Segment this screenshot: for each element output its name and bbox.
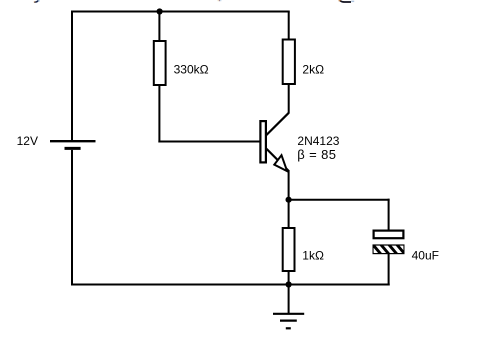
- wire capacitor vertical top: [388, 199, 390, 231]
- resistor R2 2k body: [283, 40, 295, 85]
- wire left vertical upper: [71, 11, 73, 142]
- svg-text:40uF: 40uF: [412, 248, 439, 262]
- top edge text fragment 3: [340, 1, 351, 2]
- ground bar 3: [286, 327, 291, 329]
- wire R3 bottom: [288, 271, 290, 286]
- node ground junction: [286, 281, 292, 287]
- resistor R1 330k body: [154, 41, 166, 85]
- battery V1 negative plate: [65, 147, 81, 150]
- capacitor C1 top plate: [374, 231, 404, 239]
- node emitter junction: [286, 197, 292, 203]
- resistor R3 1k body: [283, 228, 295, 271]
- transistor Q1 base bar: [260, 121, 266, 162]
- svg-text:2kΩ: 2kΩ: [302, 62, 324, 76]
- svg-text:1kΩ: 1kΩ: [302, 248, 324, 262]
- wire R1 bottom to base: [158, 85, 160, 143]
- capacitor C1 bottom plate hatched: [368, 243, 411, 256]
- svg-text:330kΩ: 330kΩ: [174, 62, 209, 76]
- transistor Q1 collector lead: [266, 113, 289, 135]
- wire top horizontal: [71, 11, 290, 13]
- wire emitter vertical: [288, 170, 290, 200]
- wire bottom horizontal: [71, 284, 390, 286]
- svg-text:β = 85: β = 85: [297, 147, 336, 162]
- wire base horizontal: [158, 141, 259, 143]
- top edge text fragment 1: [34, 0, 38, 2]
- transistor Q1 emitter arrow: [274, 155, 287, 171]
- wire from top node to R1: [158, 12, 160, 43]
- wire top to R2: [288, 12, 290, 41]
- transistor Q1 emitter lead: [266, 149, 288, 171]
- top edge text fragment 2: [218, 0, 219, 1]
- svg-text:2N4123: 2N4123: [297, 134, 339, 148]
- node top junction: [157, 8, 163, 14]
- ground bar 2: [280, 320, 297, 322]
- wire ground stem: [288, 285, 290, 314]
- wire left vertical lower: [71, 150, 73, 286]
- wire emitter to capacitor: [289, 199, 390, 201]
- ground bar 1: [273, 313, 304, 315]
- wire capacitor vertical bottom: [388, 254, 390, 286]
- svg-text:12V: 12V: [17, 134, 38, 148]
- battery V1 positive plate: [50, 140, 96, 142]
- wire R2 bottom to collector: [288, 84, 290, 113]
- wire to R3: [288, 200, 290, 229]
